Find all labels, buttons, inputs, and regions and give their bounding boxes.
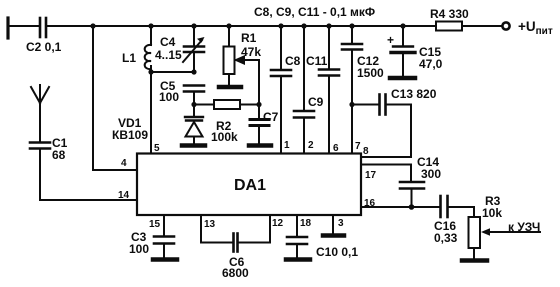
svg-text:14: 14 — [118, 190, 130, 201]
node C12-C13 — [349, 102, 354, 107]
ground R3 — [462, 258, 487, 263]
svg-text:300: 300 — [421, 167, 441, 181]
capacitor C11 — [306, 26, 339, 154]
svg-text:18: 18 — [300, 218, 312, 229]
svg-text:1500: 1500 — [357, 66, 384, 80]
svg-text:5: 5 — [154, 143, 160, 154]
svg-text:R1: R1 — [241, 31, 257, 45]
capacitor C6 — [201, 215, 270, 280]
wire pin17 — [361, 164, 411, 166]
svg-text:C13 820: C13 820 — [391, 87, 437, 101]
svg-text:100: 100 — [129, 242, 149, 256]
node link left — [148, 69, 153, 74]
svg-text:C2 0,1: C2 0,1 — [26, 40, 62, 54]
node top rail R1 — [226, 23, 231, 28]
wire pin5 vertical — [150, 66, 152, 154]
antenna — [31, 85, 49, 142]
input terminal — [6, 18, 9, 38]
capacitor C14 — [400, 155, 441, 207]
svg-text:4..15: 4..15 — [155, 48, 182, 62]
svg-text:15: 15 — [149, 219, 161, 230]
svg-text:C8: C8 — [285, 54, 301, 68]
svg-text:100: 100 — [159, 90, 179, 104]
capacitor C12 — [342, 26, 384, 154]
svg-text:68: 68 — [52, 148, 66, 162]
svg-text:2: 2 — [308, 140, 314, 151]
wire pin3 — [332, 215, 334, 234]
capacitor C4 trimmer — [155, 26, 205, 72]
wire pin4 horizontal — [93, 169, 137, 171]
svg-text:6800: 6800 — [222, 266, 249, 280]
svg-text:3: 3 — [338, 218, 344, 229]
node top rail C12 — [349, 23, 354, 28]
svg-text:8: 8 — [363, 146, 369, 157]
svg-text:к УЗЧ: к УЗЧ — [508, 220, 540, 234]
potentiometer R1 — [224, 26, 262, 105]
varicap VD1 — [112, 105, 203, 144]
svg-text:100k: 100k — [211, 130, 238, 144]
node top rail C9 — [301, 23, 306, 28]
inductor L1 — [122, 26, 151, 69]
node C14 pin16 — [409, 204, 415, 210]
svg-text:47k: 47k — [241, 45, 261, 59]
svg-text:R4 330: R4 330 — [430, 7, 469, 21]
capacitor C7 — [250, 105, 279, 143]
node top rail L1 — [148, 23, 153, 28]
capacitor C9 — [294, 26, 324, 154]
ground C15 — [390, 76, 415, 81]
wiper arrow k UZCh — [481, 220, 540, 236]
svg-text:DA1: DA1 — [234, 177, 266, 194]
svg-text:6: 6 — [333, 143, 339, 154]
svg-text:10k: 10k — [482, 206, 502, 220]
svg-text:12: 12 — [272, 218, 284, 229]
svg-text:C7: C7 — [263, 110, 279, 124]
svg-text:1: 1 — [284, 140, 290, 151]
ground R1 — [219, 85, 241, 90]
wire top rail left — [8, 25, 39, 27]
wire pin4 vertical — [92, 26, 94, 170]
ground VD1 — [182, 143, 205, 148]
svg-text:47,0: 47,0 — [419, 57, 443, 71]
svg-text:КВ109: КВ109 — [112, 128, 148, 142]
svg-text:7: 7 — [355, 141, 361, 152]
svg-text:C4: C4 — [160, 35, 176, 49]
svg-text:C9: C9 — [308, 95, 324, 109]
svg-text:0,33: 0,33 — [434, 231, 458, 245]
capacitor C3 — [129, 215, 174, 257]
ground C3 — [153, 257, 177, 262]
svg-text:4: 4 — [121, 158, 127, 169]
wire pin14 — [39, 149, 41, 201]
wire pin16 — [361, 206, 440, 208]
capacitor C10 — [287, 215, 358, 259]
capacitor C5 — [159, 79, 204, 105]
node top rail C11 — [326, 23, 331, 28]
svg-text:+: + — [387, 33, 394, 47]
capacitor C15 electrolytic — [387, 26, 443, 75]
capacitor C13 — [352, 87, 437, 115]
ground pin3 — [323, 233, 344, 238]
ground C7 — [249, 143, 271, 148]
node R2-R1-C7 — [256, 102, 261, 107]
IC DA1 — [137, 154, 361, 216]
wire to supply terminal — [462, 25, 502, 27]
resistor R2 — [194, 100, 260, 144]
wire top rail — [46, 25, 436, 27]
terminal +Upit — [502, 19, 552, 37]
node top rail x93 — [90, 23, 95, 28]
svg-text:13: 13 — [204, 219, 216, 230]
node link right — [191, 69, 196, 74]
svg-text:17: 17 — [365, 170, 377, 181]
capacitor C2 — [26, 18, 62, 54]
node top rail C4 — [191, 23, 196, 28]
capacitor C8 — [271, 26, 301, 154]
ground C10 — [286, 257, 310, 262]
capacitor C16 — [434, 196, 474, 245]
capacitor C1 — [30, 136, 68, 162]
wire link L1-C4 — [151, 71, 194, 73]
svg-text:C11: C11 — [306, 54, 328, 68]
node C5-R2-VD1 — [191, 102, 196, 107]
node top rail C8 — [278, 23, 283, 28]
node top rail C15 — [400, 23, 405, 28]
svg-text:С8, С9, С11 - 0,1 мкФ: С8, С9, С11 - 0,1 мкФ — [254, 5, 375, 19]
resistor R4 — [430, 7, 469, 31]
svg-text:C10 0,1: C10 0,1 — [316, 245, 358, 259]
wire C13 to pin8 — [410, 105, 412, 158]
svg-text:L1: L1 — [122, 51, 136, 65]
potentiometer R3 — [469, 194, 503, 259]
